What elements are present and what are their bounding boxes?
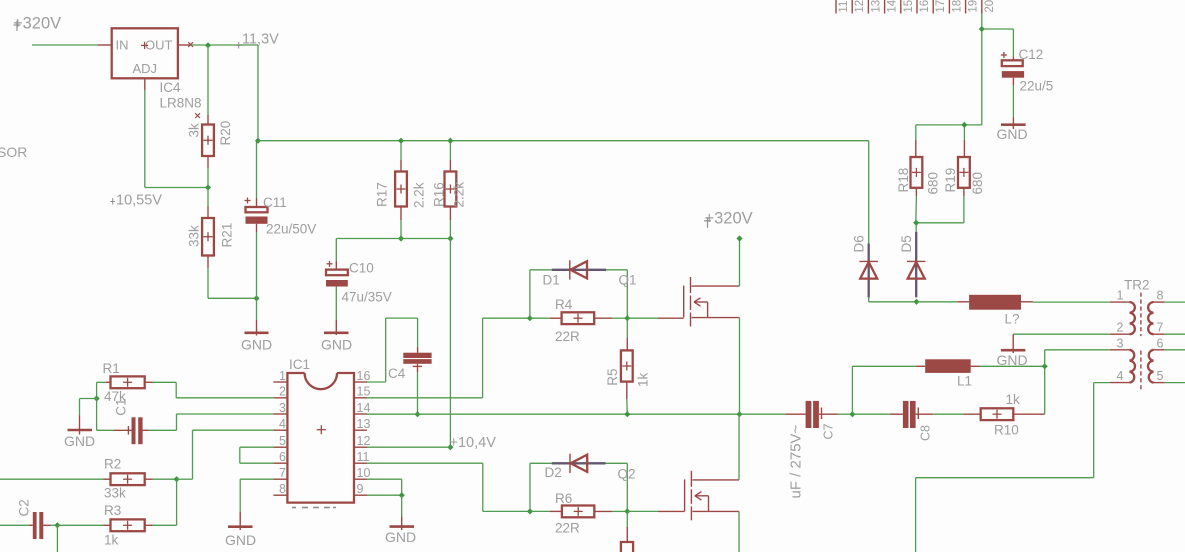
svg-text:7: 7 [279, 466, 286, 480]
svg-text:R2: R2 [104, 457, 121, 472]
svg-text:12: 12 [854, 0, 866, 13]
pin IC1.1 stub [273, 369, 287, 383]
wire Q1 source down [739, 318, 741, 415]
svg-text:1k: 1k [104, 533, 119, 548]
resistor R10 1k [963, 392, 1044, 438]
svg-text:2.2k: 2.2k [412, 182, 427, 208]
svg-text:TR2: TR2 [1124, 278, 1150, 293]
wire C1 right to pin3 [149, 414, 274, 430]
svg-text:GND: GND [997, 126, 1028, 142]
svg-text:680: 680 [970, 172, 985, 195]
svg-text:L?: L? [1005, 312, 1020, 327]
wire IC4.ADJ down [145, 78, 208, 187]
svg-text:R20: R20 [218, 121, 233, 146]
wire pin11 to node B [367, 463, 530, 511]
junction C11 bottom [253, 295, 259, 301]
label TR2 [1124, 278, 1150, 293]
wire pin7 to GND [240, 479, 273, 512]
pin IC4.OUT stub [178, 42, 193, 47]
svg-text:11,3V: 11,3V [242, 32, 279, 48]
resistor R16 2.2k [432, 141, 467, 239]
wire junction to pin4 [177, 430, 274, 479]
wire Q1 drain to +320V [739, 239, 741, 287]
resistor R5 1k [605, 318, 651, 414]
pin IC1.6 stub [273, 450, 287, 464]
wire R1 left to node [97, 382, 106, 398]
resistor R18 680 [896, 125, 941, 223]
svg-text:R16: R16 [432, 182, 447, 207]
net label 10,55V [111, 193, 163, 209]
svg-text:1: 1 [279, 369, 286, 383]
inductor L? [957, 295, 1033, 327]
pin IC1.15 stub [354, 385, 370, 399]
svg-text:14: 14 [357, 401, 371, 415]
ground under C10 [321, 333, 352, 353]
junction Q1 source node [736, 411, 742, 417]
svg-text:C12: C12 [1019, 47, 1044, 62]
svg-text:D2: D2 [545, 465, 562, 480]
ground pin7 [225, 512, 256, 548]
svg-text:22u/5: 22u/5 [1020, 79, 1054, 94]
junction top rail left end [255, 138, 261, 144]
svg-text:10: 10 [357, 466, 371, 480]
ground under C12 [997, 118, 1028, 143]
svg-text:11: 11 [838, 1, 850, 13]
wire node down to C1 [97, 399, 114, 431]
svg-text:22R: 22R [555, 329, 580, 344]
svg-text:GND: GND [385, 529, 416, 545]
svg-text:1k: 1k [636, 372, 651, 387]
svg-text:C8: C8 [919, 425, 933, 441]
pin IC1.5 stub [273, 434, 287, 448]
svg-text:IN: IN [116, 38, 129, 53]
svg-text:2: 2 [1117, 321, 1124, 335]
pin IC1.14 stub [354, 401, 370, 415]
wire D2 left [530, 463, 552, 511]
svg-text:680: 680 [926, 172, 941, 195]
label SOR (clipped word) [0, 144, 27, 160]
svg-text:3k: 3k [187, 123, 202, 138]
svg-text:uF / 275V~: uF / 275V~ [788, 424, 805, 498]
resistor R3 1k [57, 503, 152, 548]
svg-text:Q2: Q2 [618, 467, 636, 482]
junction C4 to pin14 net [414, 411, 420, 417]
wire R2 right to junction [153, 478, 177, 480]
resistor R7 (clipped) [621, 511, 633, 552]
transistor Q2 (n-mosfet) [685, 471, 739, 521]
wire TR2 pin4 down [916, 383, 1110, 552]
wire C2 to R3 junction [51, 524, 58, 526]
resistor R1 47k [103, 361, 153, 404]
svg-text:1k: 1k [1006, 392, 1021, 407]
junction R17 bottom [398, 235, 404, 241]
svg-text:GND: GND [64, 433, 95, 449]
IC4 origin cross [195, 113, 200, 118]
junction node A (R4 left) [527, 315, 533, 321]
wire pin12 to +10,4V [367, 446, 450, 448]
ground TR2 pin2 [997, 334, 1028, 368]
capacitor C10 47u/35V [326, 239, 392, 336]
junction R2/R3/pin4 [174, 476, 180, 482]
wire TR2 pin7 out [1165, 333, 1185, 335]
pin IC1.12 stub [354, 434, 370, 448]
IC IC1 (PWM controller) [287, 357, 354, 503]
junction R4 right / gate node [624, 315, 630, 321]
svg-text:18: 18 [951, 0, 963, 13]
svg-text:8: 8 [279, 482, 286, 496]
svg-text:7: 7 [1157, 321, 1164, 335]
svg-text:1: 1 [1117, 289, 1124, 303]
wire D1 left [530, 270, 552, 318]
junction R16 bottom [447, 235, 453, 241]
svg-text:R4: R4 [555, 297, 573, 312]
resistor R4 22R [530, 297, 627, 344]
wire R10 right up to pin3 node [1044, 366, 1046, 414]
svg-text:R3: R3 [104, 503, 121, 518]
pin IC1.13 stub [354, 417, 370, 431]
svg-text:5: 5 [279, 434, 286, 448]
svg-text:33k: 33k [187, 225, 202, 247]
pin IC1.16 stub [354, 369, 370, 383]
junction D5 bottom [913, 299, 919, 305]
svg-text:C11: C11 [263, 195, 287, 210]
pin IC1.10 stub [354, 466, 370, 480]
svg-text:4: 4 [279, 417, 286, 431]
wire junction down to R3 [153, 479, 177, 525]
svg-text:OUT: OUT [145, 38, 173, 53]
net label +10,4V [450, 435, 497, 451]
wire gate Q1 [627, 317, 683, 319]
svg-text:17: 17 [935, 0, 947, 13]
wire TR2 pin3 [1045, 350, 1110, 367]
svg-text:IC4: IC4 [160, 80, 182, 95]
wire R1 right to pin2 [153, 382, 274, 398]
svg-text:13: 13 [357, 417, 371, 431]
wire pin15 to gate node A [367, 318, 530, 398]
svg-text:2.2k: 2.2k [452, 182, 467, 208]
pin IC1.8 stub [273, 482, 287, 496]
junction C12 tap [979, 26, 985, 32]
wire pin14 long net [367, 413, 740, 415]
wire pin10 to pin9 [367, 479, 402, 495]
svg-text:LR8N8: LR8N8 [160, 96, 202, 111]
svg-text:16: 16 [919, 0, 931, 13]
pin IC1.3 stub [273, 401, 287, 415]
diode D6 [852, 235, 878, 297]
svg-text:C1: C1 [113, 398, 128, 415]
junction R18/R19/D5 [913, 220, 919, 226]
capacitor C1 [113, 398, 148, 444]
wire diode node to L? [917, 301, 958, 303]
junction R17 top [398, 138, 404, 144]
junction at R20 top [205, 42, 211, 48]
svg-text:22u/50V: 22u/50V [266, 222, 316, 237]
svg-text:R1: R1 [103, 361, 120, 376]
wire D1 right [606, 270, 627, 318]
svg-text:47u/35V: 47u/35V [342, 290, 392, 305]
svg-text:+320V: +320V [705, 210, 753, 228]
svg-text:15: 15 [903, 0, 915, 13]
svg-text:3: 3 [1117, 336, 1124, 350]
svg-text:8: 8 [1157, 289, 1164, 303]
wire reference rail [336, 238, 450, 240]
wire D6 bottom [869, 297, 917, 301]
svg-text:C4: C4 [388, 366, 406, 381]
junction C7/C8/L1 [849, 411, 855, 417]
capacitor C4 [388, 353, 432, 415]
svg-text:R6: R6 [555, 491, 572, 506]
wire TR2 pin5 out [1165, 382, 1185, 384]
wire +320V to IC4 IN [32, 44, 98, 46]
capacitor C7 [740, 401, 853, 440]
wire TR2 pin6 out [1165, 349, 1185, 351]
wire R21 bottom to C11 bottom node [208, 297, 257, 299]
svg-text:9: 9 [357, 482, 364, 496]
junction +10,4V node [447, 444, 453, 450]
TR2 pin numbers [1117, 289, 1164, 384]
wire +11V top rail [258, 140, 869, 142]
svg-text:16: 16 [357, 369, 371, 383]
TR2 winding top-right (pins 8-7) [1148, 302, 1165, 334]
wire R18/R19 top rail [916, 124, 982, 126]
svg-text:10,55V: 10,55V [116, 193, 162, 209]
capacitor C8 [852, 401, 963, 441]
junction node 10,55V [205, 184, 211, 190]
resistor R6 22R [530, 491, 627, 536]
capacitor C2 [0, 499, 51, 539]
resistor R2 33k [0, 457, 153, 501]
svg-text:4: 4 [1117, 369, 1124, 383]
svg-text:19: 19 [968, 0, 980, 13]
svg-text:SOR: SOR [0, 144, 27, 160]
svg-text:+10,4V: +10,4V [450, 435, 497, 451]
svg-text:+320V: +320V [13, 15, 61, 33]
svg-text:R10: R10 [994, 423, 1019, 438]
svg-text:Q1: Q1 [619, 273, 637, 288]
svg-text:C7: C7 [822, 423, 836, 439]
wire connector pin20 down [981, 14, 983, 125]
svg-text:R5: R5 [605, 368, 620, 385]
svg-text:GND: GND [321, 337, 352, 353]
junction R5 bottom [624, 411, 630, 417]
svg-text:ADJ: ADJ [133, 61, 158, 76]
wire pin9 to GND node [367, 494, 402, 496]
svg-text:C2: C2 [16, 499, 31, 516]
pin IC1.4 stub [273, 417, 287, 431]
svg-text:20: 20 [984, 0, 996, 13]
junction L1/R10/TR2 pin3 [1042, 363, 1048, 369]
svg-text:5: 5 [1157, 369, 1164, 383]
inductor L1 [916, 359, 979, 388]
svg-text:14: 14 [887, 0, 899, 13]
svg-text:D1: D1 [543, 273, 560, 288]
svg-text:D5: D5 [899, 235, 914, 252]
junction pin9/pin10 [399, 492, 405, 498]
svg-text:GND: GND [241, 337, 272, 353]
svg-text:3: 3 [279, 401, 286, 415]
wire Q2 source down off-page [738, 511, 740, 552]
label Q1 [619, 273, 637, 288]
TR2 primary winding top-left (pins 1-2) [1110, 302, 1135, 334]
wire Q2 drain up [738, 414, 740, 480]
svg-text:L1: L1 [957, 374, 972, 389]
resistor R17 2.2k [375, 141, 427, 239]
capacitor C11 22u/50V [245, 141, 317, 299]
resistor R19 680 [943, 125, 985, 223]
diode D2 [545, 454, 606, 480]
junction R16 top [447, 138, 453, 144]
svg-text:33k: 33k [104, 486, 126, 501]
resistor R21 33k [187, 188, 235, 299]
diode D5 [899, 223, 925, 298]
TR2 winding bottom-right (pins 6-5) [1148, 350, 1165, 383]
svg-text:R18: R18 [896, 168, 911, 193]
wire junction down off-page [56, 525, 58, 552]
power label +320V (left) [13, 15, 61, 33]
ground under C11 [241, 298, 272, 352]
transistor Q1 (n-mosfet) [684, 277, 740, 327]
svg-text:15: 15 [357, 385, 371, 399]
wire node up to L1 [852, 366, 916, 414]
svg-text:12: 12 [357, 434, 371, 448]
junction R19 top [961, 122, 967, 128]
value label uF / 275V~ [788, 424, 805, 498]
svg-text:IC1: IC1 [289, 357, 310, 372]
resistor R20 3k [187, 45, 234, 187]
svg-text:R19: R19 [943, 168, 958, 193]
junction +320V node [736, 235, 742, 241]
svg-text:C10: C10 [349, 261, 374, 276]
pin IC1.2 stub [273, 385, 287, 399]
wire node to C11 column [257, 45, 259, 141]
svg-text:D6: D6 [852, 235, 867, 252]
wire to C12 [982, 29, 1014, 57]
svg-text:R21: R21 [220, 223, 235, 248]
wire +10,4V branch down [449, 239, 451, 448]
diode D1 [543, 260, 607, 287]
capacitor C12 22u/50V [1001, 47, 1053, 118]
wire rail to D6 [868, 141, 870, 244]
svg-text:6: 6 [279, 450, 286, 464]
net label 11,3V [237, 32, 280, 49]
wire D2 right [606, 463, 628, 511]
junction R1/C1/GND node [94, 395, 100, 401]
pin IC1.7 stub [273, 466, 287, 480]
pin IC1.11 stub [354, 450, 370, 464]
regulator IC4 LR8N8 [112, 28, 202, 110]
wire pin16 to C4 top [367, 318, 418, 382]
svg-text:6: 6 [1157, 336, 1164, 350]
junction node B (R6 left) [527, 508, 533, 514]
power label +320V (mid) [704, 210, 753, 228]
svg-text:GND: GND [997, 352, 1028, 368]
svg-text:22R: 22R [555, 521, 580, 536]
svg-text:2: 2 [279, 385, 286, 399]
junction C2/R3 [54, 522, 60, 528]
connector pins 11-20 (clipped header) [836, 0, 996, 14]
svg-text:R17: R17 [375, 182, 390, 207]
svg-text:GND: GND [225, 532, 256, 548]
wire TR2 pin2 to GND [1013, 333, 1110, 335]
wire L1 right to junction [980, 365, 1045, 367]
IC1 clipped value text [292, 507, 336, 509]
svg-text:11: 11 [357, 450, 370, 464]
label Q2 [618, 467, 636, 482]
ground near R1 [64, 416, 95, 450]
pin IC1.9 stub [354, 482, 367, 496]
wire IC4.OUT to node 11,3V [191, 44, 258, 46]
svg-text:13: 13 [870, 0, 882, 13]
wire gate Q2 [627, 510, 684, 512]
ground pin9 [385, 495, 416, 545]
wire R18/R19 bottoms to D5 [916, 222, 964, 224]
wire pins5-6 tie [240, 447, 274, 463]
wire node to GND [80, 399, 97, 416]
junction R6 right / Q2 gate node [624, 508, 630, 514]
TR2 core [1140, 293, 1142, 390]
TR2 secondary winding bottom-left (pins 3-4) [1110, 350, 1135, 383]
wire L? to TR2 pin1 [1033, 301, 1110, 303]
pin IC4.IN stub [98, 44, 112, 46]
wire TR2 pin8 out [1165, 301, 1185, 303]
